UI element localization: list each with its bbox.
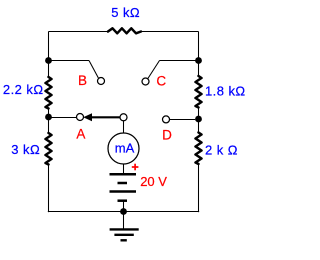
switch B lever xyxy=(89,61,98,79)
wire right rail upper xyxy=(198,32,200,77)
wire top-left horizontal segment xyxy=(49,31,109,33)
svg-text:A: A xyxy=(76,127,85,142)
svg-text:B: B xyxy=(78,73,87,88)
wire left rail lower xyxy=(48,165,50,213)
battery long plate 2 xyxy=(110,190,137,193)
battery plus sign xyxy=(132,164,139,171)
svg-text:C: C xyxy=(156,74,166,89)
wire right rail lower xyxy=(198,164,200,212)
switch C lever xyxy=(148,61,160,79)
resistor 5 kOhm zigzag xyxy=(108,28,141,33)
wire battery to bottom rail xyxy=(123,201,125,212)
terminal B open circle xyxy=(98,78,105,85)
node dot right D-row xyxy=(195,116,202,123)
svg-text:mA: mA xyxy=(115,141,135,156)
battery long plate 1 xyxy=(110,173,137,176)
svg-text:1.8 kΩ: 1.8 kΩ xyxy=(205,83,246,98)
ground bar 1 xyxy=(110,228,139,230)
battery short plate 2 xyxy=(118,199,128,202)
ground bar 2 xyxy=(114,234,133,236)
ground bar 3 xyxy=(121,239,127,241)
ground stem xyxy=(123,212,125,230)
ammeter mA circle xyxy=(108,133,139,164)
wire bottom rail xyxy=(48,211,199,213)
wire left rail upper xyxy=(48,32,50,78)
wire terminal D to right rail xyxy=(170,119,196,121)
resistor 3 kOhm zigzag xyxy=(46,133,52,165)
wire left rail middle xyxy=(48,109,50,134)
wire meter terminal to meter xyxy=(123,121,125,134)
svg-text:5 kΩ: 5 kΩ xyxy=(111,5,140,20)
resistor 2 kOhm zigzag xyxy=(196,133,202,165)
wire right rail middle xyxy=(198,108,200,133)
svg-text:2 k Ω: 2 k Ω xyxy=(205,143,238,158)
wire meter to battery xyxy=(123,164,125,173)
svg-text:20 V: 20 V xyxy=(140,174,167,189)
node dot left upper xyxy=(45,57,52,64)
node dot right upper xyxy=(195,57,202,64)
wire top-right horizontal segment xyxy=(141,31,199,33)
node dot left A-row xyxy=(45,114,52,121)
selector arrowhead pointing left at A xyxy=(83,113,92,121)
terminal A open circle xyxy=(77,114,84,121)
wire to terminal A xyxy=(49,117,77,119)
resistor 1.8 kOhm zigzag xyxy=(196,76,202,108)
wire to switch B xyxy=(49,60,90,62)
node dot bottom center xyxy=(120,208,127,215)
battery short plate 1 xyxy=(118,182,128,185)
svg-text:3 kΩ: 3 kΩ xyxy=(11,142,40,157)
meter top terminal open circle xyxy=(120,114,127,121)
terminal C open circle xyxy=(142,78,149,85)
svg-text:2.2 kΩ: 2.2 kΩ xyxy=(3,82,44,97)
wire to switch C xyxy=(160,60,199,62)
resistor 2.2 kOhm zigzag xyxy=(46,77,52,109)
terminal D open circle xyxy=(163,116,170,123)
svg-text:D: D xyxy=(162,127,172,142)
selector arrow shaft xyxy=(86,116,121,118)
